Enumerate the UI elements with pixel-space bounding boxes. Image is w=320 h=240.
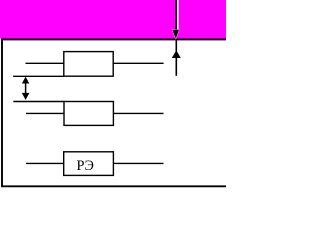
white fringe right of down arrow shaft <box>177 0 179 29</box>
double-headed gap arrow <box>22 77 30 100</box>
wire right of block 1 <box>113 62 163 64</box>
wire left of block 2 <box>26 112 64 114</box>
dimension extension line B (top of block 2 extended left) <box>13 101 64 103</box>
dimension extension line A (bottom of block 1 extended left) <box>13 75 64 77</box>
block 3 (РЭ) <box>64 152 114 176</box>
frame (figure border, right edge off-canvas) <box>2 39 240 186</box>
block 1 <box>64 52 113 77</box>
wire right of block 2 <box>113 112 163 114</box>
block 2 <box>64 102 113 126</box>
down arrow (into frame, over magenta) <box>172 0 179 39</box>
wire left of block 1 <box>26 62 64 64</box>
magenta highlight bar <box>0 0 226 39</box>
wire right of block 3 <box>113 162 163 164</box>
up arrow (inside frame, below border) <box>172 40 181 76</box>
wire left of block 3 <box>26 162 64 164</box>
svg-text:РЭ: РЭ <box>77 158 94 174</box>
